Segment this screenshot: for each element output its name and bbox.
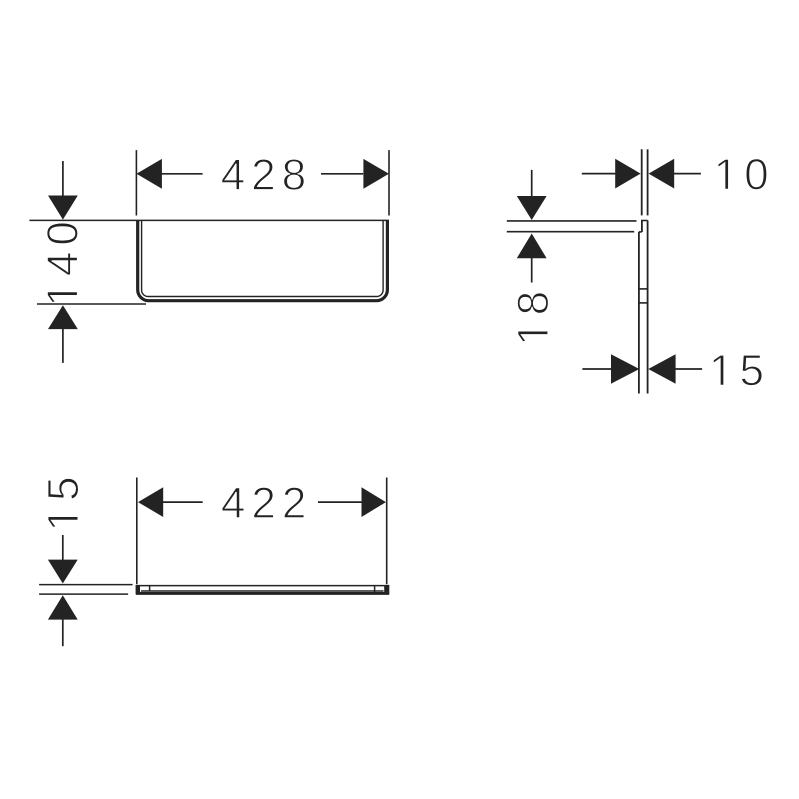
side view: wall plate upper left line (641, 149, 643, 215)
dim 428: left extension line (135, 150, 137, 215)
side view: clip upper tick (639, 288, 648, 290)
dim 15 side: right arrow (pointing left) (648, 354, 675, 383)
top view: bar left end cap (136, 585, 140, 594)
top view: bar inner line (141, 590, 384, 592)
dim 15 side: right line segment (675, 368, 702, 370)
front view: shelf outer contour (138, 220, 388, 300)
dim 10: left arrow (pointing right) (615, 159, 640, 189)
dim 15 bottom: down arrow (48, 560, 78, 584)
dim 15 bottom: up arrow (48, 595, 78, 619)
dim 18: value text (rotated) (517, 293, 548, 342)
dim 15 bottom: upper leader line (62, 535, 64, 560)
front view: shelf inner contour line (142, 220, 384, 296)
side view: shelf hook cap (641, 220, 648, 222)
dim 422: left line segment (163, 501, 203, 503)
dim 10: value text (718, 159, 767, 190)
dim 428: value text (222, 159, 305, 190)
dim 428: right arrow (363, 159, 389, 189)
side view: shelf plate bottom surface line (507, 231, 634, 233)
side view: wall plate left line lower (638, 232, 640, 394)
dim 15 bottom: lower leader line (62, 619, 64, 646)
top view: bar right tick (374, 586, 376, 593)
top view: bar bottom edge (thick) (136, 592, 389, 595)
dim 10: right arrow (pointing left) (649, 159, 675, 189)
dim 15 side: left arrow (pointing right) (611, 354, 639, 383)
top view: bar left tick (149, 586, 151, 592)
dim 422: left extension line (136, 478, 138, 585)
dim 15 bottom: value text (rotated) (48, 478, 79, 527)
dim 140: up arrow (48, 305, 78, 329)
side view: hook left vertical (641, 221, 643, 233)
dim 428: left line segment (161, 173, 202, 175)
dim 10: right line segment (674, 173, 701, 175)
side view: clip lower tick (639, 302, 648, 304)
dim 18: down arrow (517, 196, 547, 220)
dim 10: left line segment (582, 173, 616, 175)
dim 140: value text (rotated) (47, 223, 78, 303)
side view: hook step tick (639, 231, 642, 233)
dim 15 side: value text (713, 355, 762, 386)
dim 422: value text (222, 487, 304, 518)
dim 422: right extension line (386, 478, 388, 585)
dim 140: down arrow (48, 196, 78, 220)
dim 15 side: left line segment (582, 368, 611, 370)
dim 140: lower leader line (62, 329, 64, 363)
dim 422: right arrow (362, 487, 386, 517)
dim 15 bottom: upper extension line (39, 584, 133, 586)
front view: shelf top edge merged with 140 upper extension line (29, 219, 389, 221)
dim 18: lower leader line (531, 258, 533, 283)
dim 18: up arrow (517, 234, 547, 259)
dim 428: left arrow (137, 159, 162, 189)
dim 428: right line segment (321, 173, 363, 175)
dim 428: right extension line (388, 150, 390, 215)
dim 18: upper leader line (531, 170, 533, 196)
dim 422: right line segment (318, 501, 362, 503)
dim 140: upper leader line (62, 161, 64, 196)
top view: bar right end cap (384, 585, 389, 593)
dim 422: left arrow (138, 487, 163, 517)
top view: bar top edge (136, 585, 390, 587)
side view: shelf plate top surface line (507, 220, 637, 222)
side view: wall plate upper right line (647, 149, 649, 215)
side view: wall plate right line lower (647, 220, 649, 393)
dim 140: lower extension line (37, 303, 146, 305)
dim 15 bottom: lower extension line (39, 593, 128, 595)
